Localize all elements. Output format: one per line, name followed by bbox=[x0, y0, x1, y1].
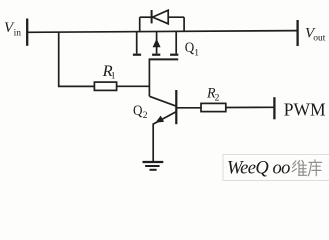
wire emitter to ground bbox=[152, 123, 154, 162]
svg-text:PWM: PWM bbox=[284, 100, 326, 120]
ground bbox=[143, 161, 164, 163]
diode D1 cathode bar bbox=[151, 10, 153, 23]
diode D1 loop right riser bbox=[183, 17, 185, 31]
wire diode top right bbox=[168, 16, 184, 18]
wire gate lead vertical bbox=[148, 59, 150, 96]
transistor Q1 drain lead bbox=[136, 32, 138, 54]
watermark CJK 维库 approximation bbox=[292, 160, 321, 176]
svg-text:Q: Q bbox=[133, 103, 143, 119]
node PWM terminal bbox=[273, 97, 275, 119]
wire branch from rail down to R1 bbox=[59, 32, 95, 86]
transistor Q1 source lead bbox=[175, 31, 177, 53]
wire R2 to PWM terminal bbox=[226, 106, 275, 108]
transistor Q1 body lead bbox=[156, 32, 158, 54]
resistor R2 bbox=[201, 103, 226, 111]
transistor Q1 channel bar left bbox=[133, 54, 141, 56]
node Vout terminal bbox=[296, 20, 298, 46]
svg-text:WeeQ: WeeQ bbox=[227, 159, 269, 179]
svg-text:in: in bbox=[14, 29, 22, 39]
watermark box bbox=[223, 155, 329, 181]
transistor Q1 channel bar right bbox=[170, 54, 178, 56]
svg-text:2: 2 bbox=[143, 111, 148, 121]
svg-text:1: 1 bbox=[194, 48, 199, 58]
svg-text:out: out bbox=[313, 33, 326, 43]
transistor Q1 body arrow bbox=[153, 39, 161, 48]
transistor Q2 base bar bbox=[175, 90, 177, 124]
diode D1 triangle bbox=[153, 10, 169, 24]
node Vin terminal bbox=[26, 19, 28, 46]
transistor Q1 gate plate bbox=[149, 58, 179, 60]
diode D1 loop left riser bbox=[139, 17, 141, 32]
wire top rail Vin to Vout bbox=[27, 31, 297, 33]
svg-text:1: 1 bbox=[111, 72, 116, 82]
transistor Q2 emitter wire bbox=[154, 112, 177, 124]
svg-text:oo: oo bbox=[273, 159, 291, 179]
transistor Q2 collector wire bbox=[149, 96, 175, 106]
wire diode top left bbox=[140, 16, 152, 18]
transistor Q1 channel bar middle bbox=[152, 54, 160, 56]
wire R1 to gate node bbox=[117, 85, 150, 87]
svg-text:Q: Q bbox=[185, 40, 195, 56]
svg-text:2: 2 bbox=[215, 93, 220, 103]
resistor R1 bbox=[94, 82, 116, 90]
transistor Q2 emitter arrow bbox=[155, 116, 164, 123]
wire Q2 base to R2 bbox=[176, 107, 201, 109]
